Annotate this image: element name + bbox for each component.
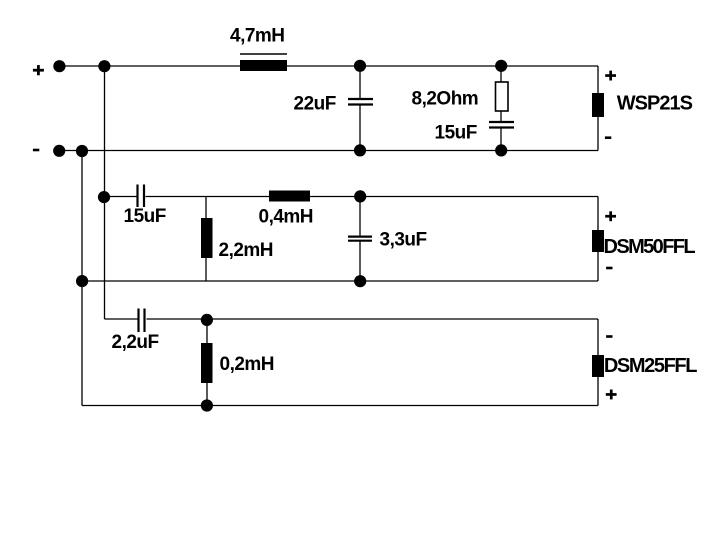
node: input - terminal dot — [53, 145, 65, 157]
svg-text:3,3uF: 3,3uF — [380, 230, 427, 251]
svg-text:DSM25FFL: DSM25FFL — [604, 355, 697, 377]
terminal - of input — [33, 149, 39, 152]
node: 3,3uF top junction — [354, 190, 366, 202]
svg-text:2,2mH: 2,2mH — [219, 240, 274, 261]
inductor L1 4,7mH (body) — [240, 60, 287, 71]
capacitor C5 2,2uF series (plates) — [139, 309, 145, 333]
wire: vertical feed from + bus x=104.5 down to tweeter wire — [104, 66, 106, 319]
wire: right vertical of midrange loop x=598 — [597, 197, 599, 282]
terminal + of WSP21S — [605, 71, 616, 81]
wire: top positive rail y=66 — [59, 65, 598, 67]
svg-text:15uF: 15uF — [435, 123, 477, 144]
svg-text:WSP21S: WSP21S — [617, 93, 693, 115]
capacitor C2 15uF (plates) — [489, 122, 514, 128]
speaker WSP21S (body) — [592, 93, 604, 117]
terminal - of DSM25FFL — [606, 335, 612, 338]
capacitor C3 15uF series (plates) — [138, 185, 145, 208]
inductor L1 4,7mH (core line) — [240, 53, 287, 55]
capacitor C4 3,3uF (plates) — [348, 237, 372, 241]
svg-text:2,2uF: 2,2uF — [112, 332, 159, 353]
node: 0,2mH bottom junction — [201, 399, 213, 411]
wire: 22uF branch upper segment x=360 — [359, 66, 361, 98]
svg-text:4,7mH: 4,7mH — [230, 26, 285, 47]
svg-text:8,2Ohm: 8,2Ohm — [412, 89, 479, 110]
capacitor C1 22uF (plates) — [348, 99, 373, 105]
svg-text:22uF: 22uF — [294, 94, 336, 115]
speaker DSM25FFL (body) — [592, 355, 604, 377]
node: resistor top junction — [495, 60, 507, 72]
svg-text:DSM50FFL: DSM50FFL — [604, 236, 696, 258]
node: midrange feed junction — [98, 191, 110, 203]
wire: resistor branch upper segment x=501 — [500, 66, 502, 82]
terminal + of DSM50FFL — [605, 211, 616, 221]
node: midrange bottom-left junction — [76, 275, 88, 287]
node: 3,3uF bottom junction — [354, 275, 366, 287]
resistor R1 8,2Ohm — [496, 82, 509, 111]
wire: 2,2mH shunt branch x=206 — [205, 197, 207, 282]
terminal - of DSM50FFL — [606, 267, 612, 270]
wire: 22uF branch lower segment x=360 — [359, 106, 361, 151]
speaker DSM50FFL (body) — [592, 230, 604, 252]
terminal - of WSP21S — [605, 136, 611, 139]
terminal + of input — [33, 65, 44, 75]
node: 22uF bottom junction — [354, 144, 366, 156]
terminal + of DSM25FFL — [606, 390, 617, 400]
wire: tweeter bottom rail y=405.5 — [82, 405, 598, 407]
svg-text:0,4mH: 0,4mH — [259, 207, 314, 228]
inductor L2 0,4mH (body) — [269, 191, 310, 202]
svg-text:15uF: 15uF — [124, 206, 166, 227]
wire: tweeter top rail right of series cap y=319 — [147, 318, 599, 320]
node: 22uF top junction — [354, 60, 366, 72]
inductor L3 2,2mH (body) — [201, 218, 213, 258]
wire: top section bottom rail y=150.5 — [59, 150, 598, 152]
wire: 3,3uF branch lower segment x=360 — [359, 242, 361, 281]
wire: tweeter top rail left of series cap y=319 — [105, 318, 139, 320]
wire: resistor-to-cap segment x=501 — [500, 111, 502, 121]
wire: midrange top rail left of series cap y=196.5 — [105, 196, 138, 198]
svg-text:0,2mH: 0,2mH — [220, 354, 275, 375]
wire: vertical feed from - bus x=82 down to bottom rail — [81, 151, 83, 406]
wire: right vertical of woofer loop x=598 — [597, 66, 599, 151]
wire: 0,2mH shunt branch x=207 — [206, 319, 208, 406]
node: + bus junction dot — [98, 60, 110, 72]
wire: right vertical of tweeter loop x=598 — [597, 319, 599, 406]
node: - bus junction dot — [76, 145, 88, 157]
node: 0,2mH top junction — [201, 314, 213, 326]
wire: 15uF branch lower segment x=501 — [500, 129, 502, 151]
wire: 3,3uF branch upper segment x=360 — [359, 197, 361, 236]
inductor L4 0,2mH (body) — [201, 343, 213, 383]
node: input + terminal dot — [53, 60, 65, 72]
wire: midrange top rail right of series cap y=196.5 — [146, 196, 599, 198]
node: 15uF bottom junction — [495, 144, 507, 156]
wire: midrange bottom rail y=281 — [82, 280, 598, 282]
